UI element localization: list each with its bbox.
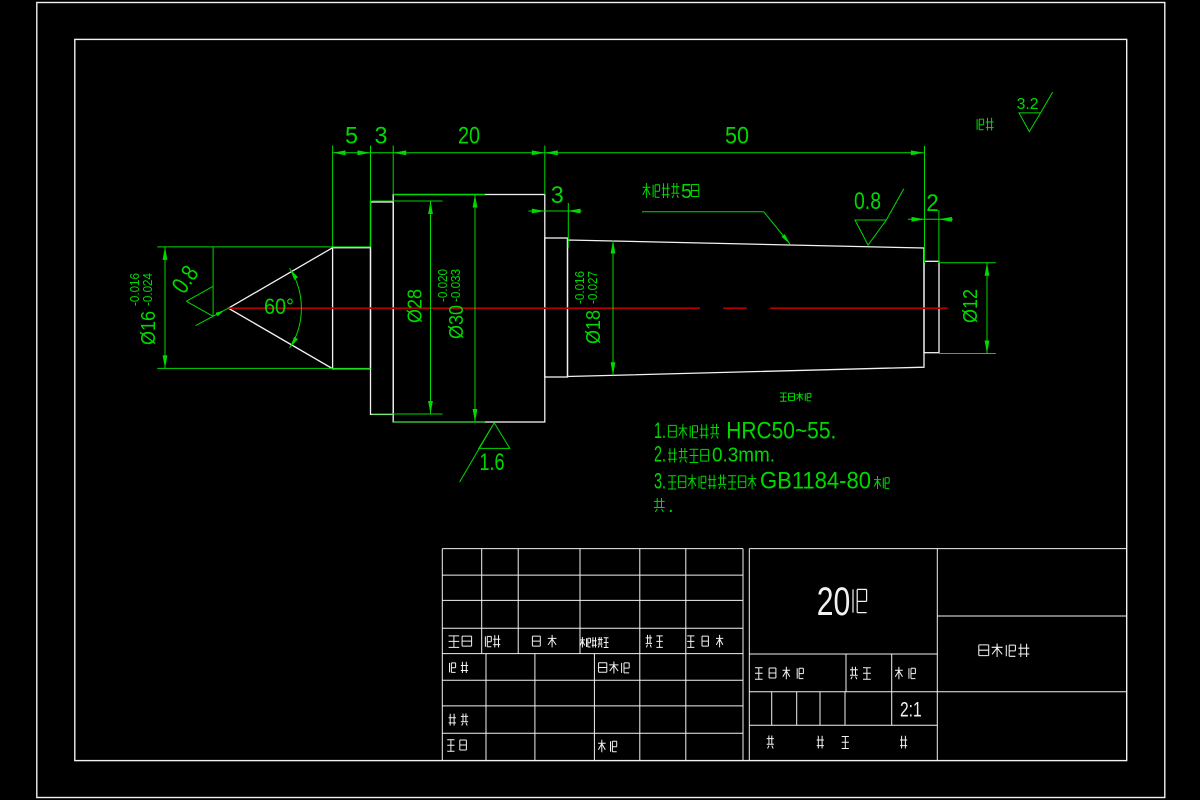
title block: right main table xyxy=(748,549,750,761)
tech requirements title xyxy=(780,392,811,401)
svg-text:3: 3 xyxy=(375,122,388,149)
svg-text:.: . xyxy=(668,495,674,517)
svg-text:1.6: 1.6 xyxy=(480,449,505,476)
svg-text:1.: 1. xyxy=(654,418,666,443)
dim 20 arrows + text xyxy=(393,150,406,155)
dim chain extension lines xyxy=(332,146,334,248)
svg-text:Ø16: Ø16 xyxy=(138,311,160,345)
surface finish 3.2 (default, top right) xyxy=(1019,92,1053,132)
header row: BiaoJi / ChuShu / FenQu / file no / sign / date xyxy=(449,636,472,648)
svg-text:0.8: 0.8 xyxy=(854,188,881,215)
surface finish 0.8 (cone) xyxy=(212,246,214,316)
svg-text:Ø12: Ø12 xyxy=(960,289,982,323)
text QiYu (rest) xyxy=(977,118,994,131)
dim 50 arrows + text xyxy=(545,150,558,155)
svg-text:20: 20 xyxy=(458,122,480,149)
dim phi28 xyxy=(372,200,443,202)
dim phi12 xyxy=(939,262,996,264)
svg-text:2.: 2. xyxy=(654,442,666,467)
dim 60 degree arc xyxy=(290,268,302,348)
row: stage mark / weight / scale xyxy=(755,667,803,680)
svg-text:5: 5 xyxy=(681,181,692,203)
part name: rotating center xyxy=(979,644,1030,658)
centerline (red) xyxy=(228,307,700,309)
svg-text:3.2: 3.2 xyxy=(1017,96,1039,113)
dim phi16 xyxy=(157,246,370,248)
part: relief neck xyxy=(545,238,568,377)
svg-text:2:1: 2:1 xyxy=(900,699,922,722)
part: phi12 end stub xyxy=(924,261,939,352)
part: phi16 cylinder xyxy=(333,248,371,369)
svg-text:5: 5 xyxy=(345,122,358,149)
svg-text:50: 50 xyxy=(725,123,749,150)
svg-text:20: 20 xyxy=(817,580,851,624)
drawing inner border frame xyxy=(75,39,1127,760)
svg-text:GB1184-80: GB1184-80 xyxy=(760,468,871,495)
row: ShenHe xyxy=(449,714,469,726)
part: 60 deg cone tip xyxy=(228,248,332,369)
svg-text:-0.027: -0.027 xyxy=(585,271,600,304)
title block: left revision table xyxy=(441,549,443,761)
dim 5 arrows + text xyxy=(333,150,346,155)
part: phi28 collar xyxy=(371,202,394,414)
surface finish 0.8 (taper) xyxy=(855,189,904,245)
surface finish 1.6 (body bottom) xyxy=(460,423,510,482)
leader: Morse taper No.5 label xyxy=(642,211,764,213)
part: morse taper body xyxy=(568,240,925,377)
svg-text:3: 3 xyxy=(551,182,564,209)
svg-text:-0.024: -0.024 xyxy=(140,273,155,306)
svg-text:2: 2 xyxy=(926,190,939,217)
row: SheJi / BiaoZhunHua xyxy=(450,662,469,673)
svg-text:Ø28: Ø28 xyxy=(405,289,427,323)
dim line 5/3/20/50 xyxy=(333,152,924,154)
dim phi30 xyxy=(393,194,485,196)
svg-text:-0.033: -0.033 xyxy=(448,269,463,302)
svg-text:60°: 60° xyxy=(264,294,294,319)
dim 2 (end stub) xyxy=(908,218,953,220)
dim 3 (neck) xyxy=(528,210,581,212)
svg-text:0.3mm.: 0.3mm. xyxy=(712,445,775,467)
sheet info: gong X zhang di X zhang xyxy=(767,736,774,749)
svg-text:HRC50~55.: HRC50~55. xyxy=(726,418,836,445)
row: GongYi / PiZhun xyxy=(447,740,466,752)
dim phi18 xyxy=(612,241,614,376)
svg-text:Ø18: Ø18 xyxy=(583,310,605,344)
note line 4 xyxy=(654,498,665,512)
part: phi30 body xyxy=(393,195,545,423)
svg-text:3.: 3. xyxy=(654,469,666,494)
svg-text:Ø30: Ø30 xyxy=(446,305,468,339)
